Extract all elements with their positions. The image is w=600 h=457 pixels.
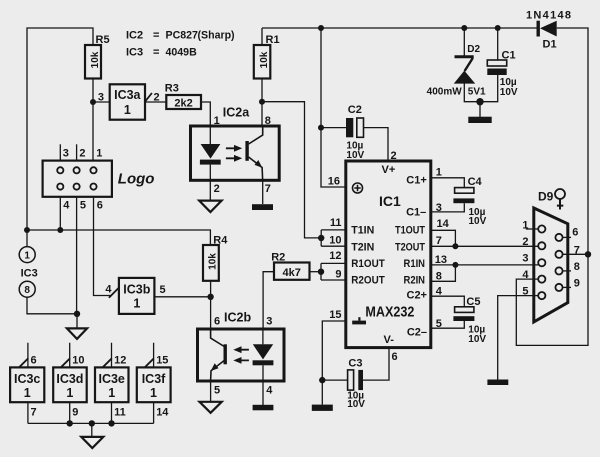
svg-text:14: 14 [156,407,169,419]
svg-text:C1+: C1+ [406,174,427,186]
svg-text:1: 1 [24,386,31,400]
svg-text:5V1: 5V1 [468,87,486,98]
svg-text:IC2b: IC2b [224,311,251,325]
svg-text:2: 2 [154,92,160,104]
svg-text:1: 1 [522,219,528,231]
svg-text:4: 4 [266,385,273,397]
svg-text:1N4148: 1N4148 [526,10,572,22]
svg-text:R1IN: R1IN [404,258,426,270]
svg-text:1: 1 [108,386,115,400]
svg-text:R3: R3 [165,83,179,95]
svg-text:4: 4 [522,269,529,281]
svg-text:C5: C5 [466,296,480,308]
svg-text:R1: R1 [266,34,280,46]
svg-text:10V: 10V [500,87,518,98]
svg-text:1: 1 [24,250,30,261]
svg-text:3: 3 [98,92,104,104]
svg-text:8: 8 [436,271,442,283]
svg-text:IC3e: IC3e [98,372,124,386]
svg-text:C1: C1 [502,50,516,62]
svg-text:R5: R5 [96,34,110,46]
svg-text:9: 9 [335,269,341,281]
svg-text:6: 6 [392,351,398,363]
svg-text:15: 15 [329,309,341,321]
svg-text:1: 1 [150,386,157,400]
svg-text:IC3a: IC3a [114,88,141,102]
svg-text:5: 5 [522,286,528,298]
svg-text:8: 8 [24,285,30,296]
svg-text:IC1: IC1 [379,193,401,209]
svg-text:Logo: Logo [118,170,155,187]
svg-text:R4: R4 [213,234,228,246]
svg-text:C2: C2 [348,104,362,116]
svg-text:12: 12 [329,250,341,262]
svg-text:2: 2 [214,183,220,195]
svg-text:5: 5 [214,385,220,397]
svg-text:10: 10 [72,355,84,367]
svg-text:400mW: 400mW [427,87,463,98]
svg-text:12: 12 [114,355,126,367]
svg-text:IC3c: IC3c [14,372,40,386]
svg-text:MAX232: MAX232 [365,304,414,320]
svg-text:10k: 10k [208,253,219,270]
svg-text:9: 9 [72,407,78,419]
svg-text:7: 7 [436,235,442,247]
svg-text:1: 1 [214,115,220,127]
svg-text:1: 1 [124,103,131,117]
svg-text:T2OUT: T2OUT [395,241,425,253]
svg-text:R2IN: R2IN [404,275,426,287]
svg-text:1: 1 [133,296,140,310]
svg-text:10: 10 [329,235,341,247]
svg-text:IC3b: IC3b [123,283,150,297]
svg-text:IC3: IC3 [21,267,38,279]
svg-text:IC3f: IC3f [142,372,166,386]
svg-text:C3: C3 [348,358,362,370]
svg-text:D9: D9 [538,189,554,203]
svg-text:T1IN: T1IN [351,225,374,237]
svg-text:R2OUT: R2OUT [351,275,385,287]
svg-text:16: 16 [328,176,340,188]
svg-text:8: 8 [265,115,271,127]
svg-text:4: 4 [105,284,112,296]
svg-text:C2–: C2– [407,327,427,339]
svg-text:R2: R2 [271,252,285,264]
svg-text:6: 6 [572,226,578,238]
svg-text:11: 11 [114,407,126,419]
svg-text:6: 6 [214,316,220,328]
svg-text:V-: V- [384,334,395,346]
svg-text:T2IN: T2IN [351,241,374,253]
svg-text:3: 3 [436,202,442,214]
svg-text:C1–: C1– [406,207,426,219]
svg-text:5: 5 [160,284,166,296]
svg-text:C4: C4 [468,176,483,188]
svg-text:5: 5 [80,200,86,212]
svg-text:10V: 10V [347,399,365,410]
svg-text:3: 3 [266,316,272,328]
svg-text:10V: 10V [468,334,486,345]
svg-text:1: 1 [96,148,102,160]
svg-text:2: 2 [391,150,397,162]
svg-text:8: 8 [574,261,580,273]
svg-text:10V: 10V [346,150,364,161]
svg-text:IC2a: IC2a [223,106,250,120]
svg-text:R1OUT: R1OUT [351,258,385,270]
svg-text:3: 3 [63,148,69,160]
svg-text:1: 1 [436,167,442,179]
svg-text:15: 15 [156,355,168,367]
svg-text:2: 2 [79,148,85,160]
svg-text:13: 13 [435,254,447,266]
svg-text:IC3d: IC3d [56,372,83,386]
svg-text:D1: D1 [543,39,557,51]
svg-text:7: 7 [31,407,37,419]
svg-text:D2: D2 [467,44,480,55]
svg-text:11: 11 [330,217,342,229]
svg-text:C2+: C2+ [407,290,428,302]
svg-text:2: 2 [522,236,528,248]
svg-text:T1OUT: T1OUT [395,225,425,237]
svg-text:4: 4 [63,200,70,212]
svg-text:14: 14 [437,218,450,230]
svg-text:2k2: 2k2 [174,98,192,110]
svg-text:6: 6 [97,200,103,212]
svg-text:3: 3 [522,253,528,265]
svg-text:9: 9 [574,278,580,290]
svg-text:10V: 10V [469,216,487,227]
svg-text:7: 7 [265,183,271,195]
svg-text:6: 6 [31,355,37,367]
svg-text:4k7: 4k7 [283,267,301,279]
svg-text:4: 4 [436,286,443,298]
svg-text:IC2=PC827(Sharp): IC2=PC827(Sharp) [126,30,235,42]
svg-text:10k: 10k [90,51,101,68]
svg-text:5: 5 [436,318,442,330]
svg-text:1: 1 [66,386,73,400]
svg-text:V+: V+ [382,164,396,176]
svg-text:7: 7 [574,244,580,256]
svg-text:10k: 10k [259,51,270,68]
